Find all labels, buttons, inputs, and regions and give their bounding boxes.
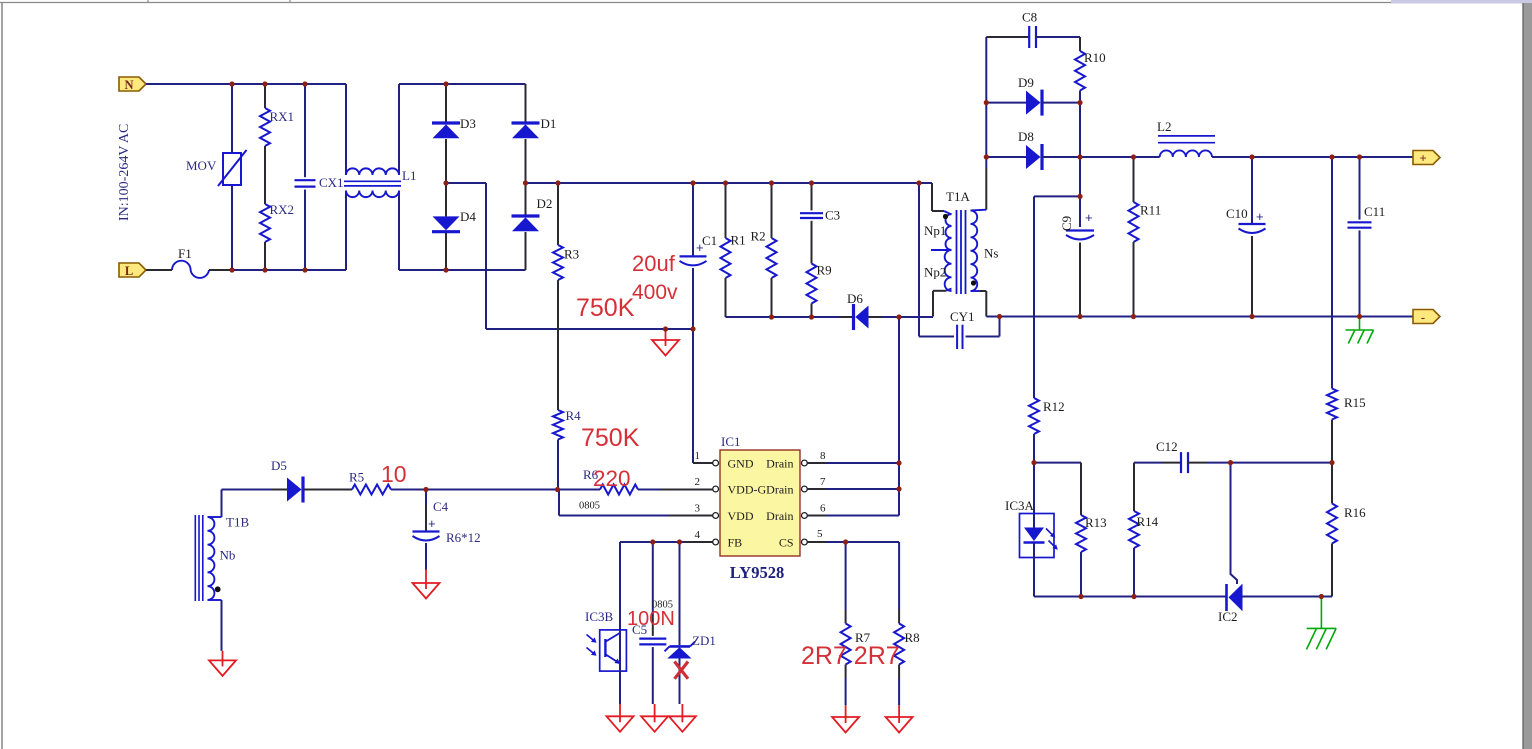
svg-text:Drain: Drain: [766, 483, 793, 497]
svg-text:Np2: Np2: [924, 265, 946, 280]
svg-text:CX1: CX1: [319, 175, 344, 190]
svg-text:C12: C12: [1156, 439, 1178, 454]
svg-text:C4: C4: [433, 499, 449, 514]
svg-text:IN:100-264V AC: IN:100-264V AC: [117, 124, 132, 221]
svg-text:R6*12: R6*12: [446, 530, 481, 545]
svg-text:N: N: [124, 78, 133, 92]
svg-text:RX1: RX1: [270, 109, 295, 124]
svg-text:C10: C10: [1226, 206, 1248, 221]
svg-text:C3: C3: [825, 208, 840, 223]
svg-text:D3: D3: [460, 116, 476, 131]
svg-text:VDD: VDD: [728, 509, 754, 523]
svg-text:L1: L1: [402, 168, 416, 183]
svg-text:+: +: [428, 516, 436, 531]
svg-text:L2: L2: [1157, 119, 1171, 134]
svg-text:-: -: [1421, 310, 1425, 324]
svg-text:FB: FB: [728, 536, 743, 550]
svg-text:D6: D6: [847, 291, 863, 306]
svg-text:0805: 0805: [579, 501, 600, 512]
svg-text:VDD-G: VDD-G: [728, 483, 767, 497]
svg-text:R8: R8: [905, 630, 920, 645]
svg-text:+: +: [1419, 151, 1426, 165]
svg-text:6: 6: [820, 503, 826, 515]
svg-text:IC1: IC1: [721, 434, 741, 449]
svg-text:D5: D5: [271, 458, 287, 473]
svg-text:R10: R10: [1084, 50, 1106, 65]
svg-text:ZD1: ZD1: [692, 633, 716, 648]
svg-text:T1B: T1B: [226, 515, 249, 530]
svg-text:20uf: 20uf: [632, 251, 676, 276]
svg-text:IC3A: IC3A: [1005, 498, 1035, 513]
svg-text:R16: R16: [1344, 505, 1366, 520]
svg-text:MOV: MOV: [186, 158, 217, 173]
svg-text:C1: C1: [702, 233, 717, 248]
svg-text:+: +: [1256, 209, 1264, 224]
svg-text:GND: GND: [728, 457, 754, 471]
svg-text:R5: R5: [349, 470, 364, 485]
svg-text:D4: D4: [460, 209, 476, 224]
svg-text:R9: R9: [817, 263, 832, 278]
svg-text:R15: R15: [1344, 395, 1366, 410]
svg-text:2: 2: [695, 476, 701, 488]
svg-text:750K: 750K: [576, 294, 635, 322]
svg-text:7: 7: [820, 476, 826, 488]
svg-text:T1A: T1A: [946, 189, 970, 204]
svg-text:R4: R4: [566, 408, 582, 423]
svg-text:CY1: CY1: [950, 309, 975, 324]
svg-text:10: 10: [381, 461, 407, 487]
svg-text:Drain: Drain: [766, 457, 793, 471]
svg-text:C9: C9: [1059, 216, 1074, 231]
svg-text:D2: D2: [537, 196, 553, 211]
svg-text:R1: R1: [731, 233, 746, 248]
svg-text:4: 4: [695, 529, 701, 541]
svg-text:R2: R2: [751, 229, 766, 244]
svg-text:1: 1: [695, 450, 701, 462]
svg-text:L: L: [125, 264, 133, 278]
svg-text:3: 3: [695, 503, 701, 515]
svg-text:Drain: Drain: [766, 509, 793, 523]
svg-text:Ns: Ns: [984, 246, 998, 261]
svg-text:R11: R11: [1140, 203, 1161, 218]
svg-text:CS: CS: [779, 536, 794, 550]
svg-text:D8: D8: [1018, 129, 1034, 144]
svg-text:R13: R13: [1085, 515, 1107, 530]
svg-text:Nb: Nb: [220, 548, 236, 563]
svg-text:8: 8: [820, 450, 826, 462]
svg-text:220: 220: [593, 466, 631, 491]
svg-text:+: +: [1085, 210, 1093, 225]
svg-text:+: +: [696, 240, 704, 255]
svg-text:C8: C8: [1022, 10, 1037, 25]
svg-text:C11: C11: [1364, 204, 1385, 219]
svg-text:R3: R3: [564, 247, 579, 262]
svg-text:F1: F1: [178, 246, 192, 261]
svg-text:5: 5: [817, 528, 823, 540]
svg-text:R12: R12: [1043, 399, 1065, 414]
svg-text:100N: 100N: [627, 608, 675, 630]
svg-text:D9: D9: [1018, 75, 1034, 90]
svg-text:Np1: Np1: [924, 223, 946, 238]
svg-text:750K: 750K: [581, 424, 640, 452]
svg-text:D1: D1: [541, 116, 557, 131]
svg-text:400v: 400v: [632, 281, 678, 304]
svg-text:2R7 2R7: 2R7 2R7: [801, 642, 900, 670]
svg-text:IC2: IC2: [1218, 609, 1238, 624]
svg-text:R14: R14: [1137, 514, 1159, 529]
svg-text:LY9528: LY9528: [730, 563, 784, 582]
svg-text:IC3B: IC3B: [585, 609, 614, 624]
svg-text:RX2: RX2: [270, 202, 295, 217]
svg-text:0805: 0805: [652, 600, 673, 611]
